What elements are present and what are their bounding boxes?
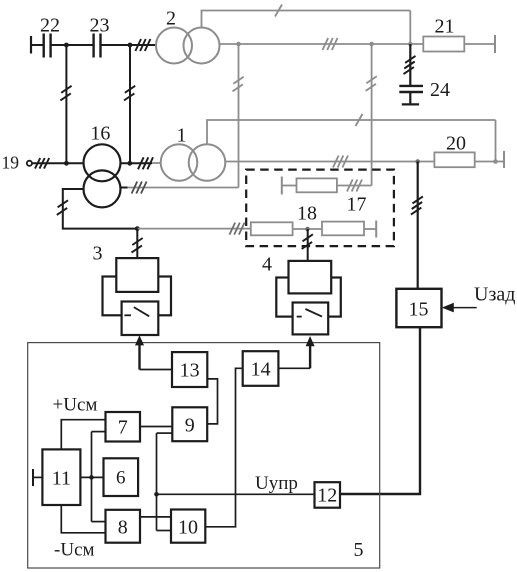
outer rect of block 3 xyxy=(103,277,172,316)
wire from transformer 2 top to top bus xyxy=(202,11,411,28)
capacitor 24 xyxy=(399,86,423,92)
resistor 21 xyxy=(423,37,464,52)
terminal bar left of capacitor 22 xyxy=(30,36,32,54)
block 10 xyxy=(171,510,205,543)
node junction x=129.8 xyxy=(127,161,132,166)
wire block 13 to arrow of block 3 xyxy=(140,369,173,371)
wire xyxy=(364,228,376,230)
wire from node 417.7 down to block 15 xyxy=(417,162,419,289)
wire transformer 2 secondary bus xyxy=(220,43,424,45)
resistor 18 (left) xyxy=(251,222,293,235)
dashed box (17/18 group) xyxy=(246,170,394,247)
wire down from node C xyxy=(409,44,411,86)
svg-text:4: 4 xyxy=(262,254,272,276)
svg-text:20: 20 xyxy=(446,133,466,155)
switch contact in block 3 xyxy=(124,314,131,316)
wire block 8 to block 10 xyxy=(140,516,171,518)
wire down from node 307.5 to block 4 xyxy=(307,229,309,261)
hash marks (3 strokes) before dashed box xyxy=(230,223,245,235)
arrow from box 5 to block 3 xyxy=(138,344,140,370)
terminal bar below capacitor 24 xyxy=(402,103,419,105)
svg-text:Uупр: Uупр xyxy=(255,473,298,494)
switch contact in block 4 xyxy=(297,316,302,318)
wire stub to block 8 xyxy=(92,521,106,523)
wire between transformer 16 and hash xyxy=(121,162,153,164)
wire xyxy=(51,44,94,46)
wire xyxy=(101,44,157,46)
svg-text:22: 22 xyxy=(40,15,60,37)
node junction x=137.3 on y=228.6 xyxy=(135,226,140,231)
hash marks (2 strokes) on x=62.8 xyxy=(57,200,68,215)
svg-text:11: 11 xyxy=(52,468,71,490)
upper rect of block 4 xyxy=(289,261,332,294)
block 8 xyxy=(106,510,141,543)
wire stub below capacitor 24 xyxy=(409,92,411,104)
terminal bar right of resistor 21 xyxy=(494,35,496,53)
hash marks (2 strokes) on vertical A xyxy=(60,86,71,101)
terminal bar right of resistor 20 xyxy=(503,151,505,168)
svg-text:19: 19 xyxy=(2,153,20,173)
node C x=410.3 xyxy=(408,42,413,47)
hash marks (3 strokes) on secondary bus y=161.5 xyxy=(333,156,348,168)
wire +Ucm: block 11 top to block 7 xyxy=(61,420,105,450)
wire from block 15 bottom to block 12 xyxy=(340,327,420,494)
wire block 11 right to block 6 xyxy=(80,476,103,478)
slash mark on top bus xyxy=(275,5,282,17)
wire block 7 to block 9 xyxy=(140,426,172,428)
Uzad arrow into block 15 xyxy=(453,307,477,309)
svg-text:6: 6 xyxy=(116,468,126,489)
svg-text:+Uсм: +Uсм xyxy=(53,395,98,416)
wire stub to block 7 xyxy=(92,431,106,433)
block 6 xyxy=(104,458,139,496)
hash marks (2 strokes) on x=371.6 xyxy=(366,76,377,91)
svg-text:5: 5 xyxy=(354,539,364,561)
transformer 16 (black, two vertically overlapping circles) xyxy=(84,144,121,207)
svg-text:Uзад: Uзад xyxy=(474,284,515,306)
transformer 16 secondary: left wire xyxy=(63,189,138,229)
wire stub to block 10 xyxy=(157,530,172,532)
svg-text:7: 7 xyxy=(118,417,128,439)
svg-text:2: 2 xyxy=(166,8,176,30)
block 7 xyxy=(106,412,141,442)
block 3 (thyristor switch unit) xyxy=(103,258,172,335)
wire transformer 1 secondary bus y=161.5 xyxy=(225,161,434,163)
block 15 xyxy=(396,289,441,327)
svg-text:24: 24 xyxy=(430,79,450,101)
wire vertical x=137.3 down to block 3 xyxy=(136,229,138,259)
hash marks (3 strokes) before transformer 2 xyxy=(135,39,150,51)
svg-text:9: 9 xyxy=(185,415,195,437)
wire gray from node 137.3 to dashed box resistor 18 xyxy=(137,228,251,230)
hash marks (3 strokes) on cap 24 wire xyxy=(404,56,416,74)
wire from node 19 to transformer 16 xyxy=(32,162,84,164)
svg-text:13: 13 xyxy=(180,360,200,382)
wire xyxy=(282,185,297,187)
resistor 20 xyxy=(434,152,474,167)
wire block 10 to block 14 xyxy=(205,368,242,527)
wire vertical gray x=238.5 down to transformer 16 secondary line xyxy=(238,44,240,188)
wire xyxy=(31,44,44,46)
wire vertical from junction B xyxy=(129,45,131,163)
svg-text:21: 21 xyxy=(435,16,455,38)
svg-text:3: 3 xyxy=(93,243,103,265)
svg-text:10: 10 xyxy=(178,517,198,539)
wire down from top bus to node C xyxy=(409,11,411,45)
transformer 2 (gray, two overlapping circles) xyxy=(156,28,220,64)
node junction on x=156.5 xyxy=(154,492,159,497)
hash marks (3 strokes) on secondary bus xyxy=(323,38,338,50)
transformer 1 (gray, two overlapping circles) xyxy=(161,144,226,181)
svg-text:8: 8 xyxy=(118,517,128,539)
wire vertical x=91.5 linking blocks 7 and 8 xyxy=(91,432,93,522)
hash marks (3 strokes) on gray secondary right xyxy=(132,182,147,194)
node junction A xyxy=(64,43,69,48)
svg-text:12: 12 xyxy=(317,485,337,507)
wire xyxy=(464,43,495,45)
node on bus x=238.5 xyxy=(236,42,241,47)
node junction x=307.5 xyxy=(305,227,310,232)
node junction B xyxy=(128,43,133,48)
block 14 xyxy=(243,351,279,386)
wire -Ucm: block 11 bottom to block 8 xyxy=(61,505,105,533)
svg-text:17: 17 xyxy=(347,194,367,216)
wire block 9 to block 13 xyxy=(207,379,217,424)
resistor 17 xyxy=(297,178,337,192)
node x=371.6 xyxy=(369,42,374,47)
upper rect of block 3 xyxy=(116,258,158,292)
arrow from box 5 to block 4 xyxy=(309,344,311,368)
wire xyxy=(475,161,504,163)
wire Uupr: from node to block 12 xyxy=(157,493,315,495)
capacitor 22 xyxy=(44,34,51,58)
hash marks (3 strokes) after node 19 xyxy=(35,158,49,169)
terminal bar left of resistor 17 xyxy=(281,177,283,195)
hash marks (3 strokes) right of resistor 17 xyxy=(347,180,362,192)
block 12 xyxy=(315,482,341,508)
terminal bar left of block 11 xyxy=(32,469,34,486)
capacitor 23 xyxy=(94,34,101,58)
lower rect of block 3 with switch xyxy=(122,302,159,336)
outer rect of block 4 xyxy=(276,278,341,317)
wire xyxy=(337,185,372,187)
node junction x=91.5 xyxy=(89,475,94,480)
hash marks (2 strokes) on vertical B xyxy=(124,86,135,101)
svg-text:-Uсм: -Uсм xyxy=(54,540,95,561)
node junction x=417.7 xyxy=(415,159,420,164)
wire vertical from junction A xyxy=(65,45,67,163)
wire down x=495.5 xyxy=(495,120,497,162)
hash marks (3 strokes) right of transformer 16 xyxy=(138,157,153,169)
block 11 xyxy=(42,449,80,505)
wire terminal to block 11 xyxy=(33,476,42,478)
hash marks (3 strokes) on wire to block 15 xyxy=(411,196,423,214)
lower rect of block 4 with switch xyxy=(293,303,329,335)
terminal circle node 19 xyxy=(27,161,32,166)
wire vertical x=156.5 linking blocks 9 and 10 xyxy=(156,433,158,530)
box 5 (control unit outline) xyxy=(28,343,380,568)
wire block 14 to arrow of block 4 xyxy=(278,367,310,369)
wire xyxy=(293,228,322,230)
node junction x=495.5 xyxy=(493,159,498,164)
node junction x=66.4 xyxy=(64,161,69,166)
svg-text:14: 14 xyxy=(251,359,271,381)
resistor 18 (right element) xyxy=(322,222,364,236)
svg-text:15: 15 xyxy=(409,299,429,321)
hash marks (2 strokes) on x=238.5 xyxy=(233,77,244,92)
wire gray into transformer 1 xyxy=(152,162,161,164)
wire vertical gray x=371.6 down to resistor 17 xyxy=(371,44,373,186)
transformer 16 secondary: right wire (gray) xyxy=(120,187,127,189)
wire stub to block 9 xyxy=(157,432,173,434)
slash mark on y=120 bus xyxy=(356,114,363,126)
block 13 xyxy=(172,352,207,387)
wire from transformer 1 top to middle bus y=120 xyxy=(207,120,496,144)
svg-text:18: 18 xyxy=(297,203,317,225)
hash marks (2 strokes) above block 4 xyxy=(302,234,313,249)
svg-text:23: 23 xyxy=(90,15,110,37)
block 4 (thyristor switch unit) xyxy=(276,261,341,335)
svg-text:1: 1 xyxy=(177,125,187,147)
hash marks (2 strokes) above block 3 xyxy=(132,238,143,253)
svg-text:16: 16 xyxy=(90,123,110,145)
block 9 xyxy=(172,407,207,441)
terminal bar right of resistor 18 xyxy=(375,221,377,238)
